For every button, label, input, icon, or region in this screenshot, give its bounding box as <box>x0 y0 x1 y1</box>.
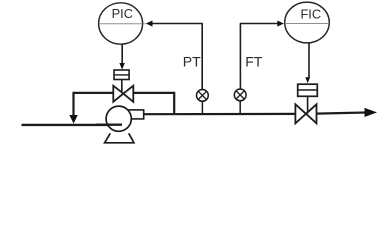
svg-text:PT: PT <box>183 54 201 70</box>
svg-text:FT: FT <box>245 53 263 69</box>
actuator FV <box>298 84 318 96</box>
signal FT to FIC <box>240 21 284 90</box>
control valve PV (recycle) <box>113 86 133 102</box>
control valve FV (main) <box>295 104 316 123</box>
actuator PV <box>114 70 129 80</box>
controller FIC <box>285 2 330 43</box>
svg-text:PIC: PIC <box>112 6 133 21</box>
feed line <box>22 124 123 126</box>
signal FIC to FV <box>305 43 310 83</box>
sensor PT <box>197 90 209 115</box>
valve stem FV <box>307 96 309 113</box>
main pipe <box>144 108 377 117</box>
pump P1 <box>96 106 144 143</box>
controller PIC <box>99 3 143 44</box>
recycle line <box>69 92 174 124</box>
valve stem PV <box>121 80 123 94</box>
signal PIC to PV <box>119 44 124 70</box>
svg-text:FIC: FIC <box>300 7 321 22</box>
sensor FT <box>234 89 246 114</box>
signal PT to PIC <box>143 21 203 90</box>
